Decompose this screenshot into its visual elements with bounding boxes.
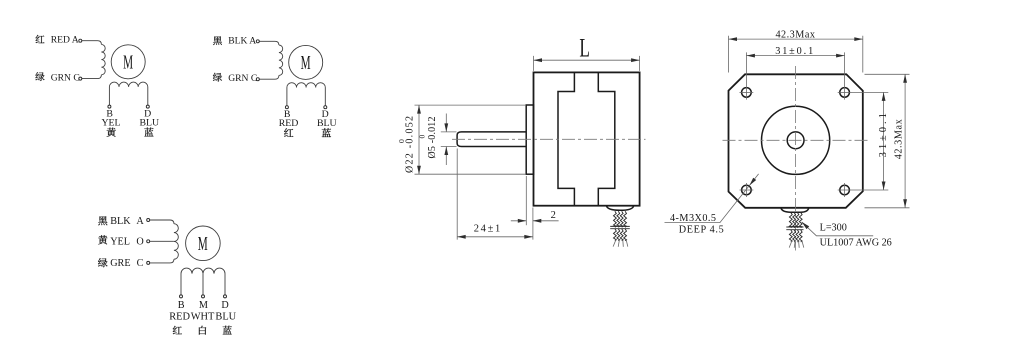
terminal C (D2) (256, 78, 259, 81)
svg-text:M: M (198, 233, 208, 255)
centreline (side view) (452, 138, 646, 140)
inductor winding A-C (D2) (279, 45, 283, 75)
wire: lead A (150, 220, 174, 224)
wire: phase lead C (D1) (82, 75, 102, 79)
svg-text:D: D (221, 300, 228, 311)
label: lead D wire colour (blue) (139, 108, 159, 136)
svg-text:42.3Max: 42.3Max (893, 119, 904, 159)
svg-text:RED: RED (279, 118, 299, 129)
callout L=300 (lead length) with leader (802, 222, 874, 236)
horizontal centreline (front view) (723, 139, 870, 141)
dimension 42.3Max (body width) (729, 29, 863, 72)
label: lead D wire colour (blue) (317, 109, 337, 137)
dimension L (body length) (534, 33, 640, 71)
svg-text:M: M (199, 300, 208, 311)
callout 4-M3X0.5 DEEP 4.5 (mounting holes) (665, 174, 759, 235)
svg-text:Ø22 -0.052: Ø22 -0.052 (405, 116, 416, 173)
terminal D (224, 295, 227, 298)
vertical centreline (front view) (795, 66, 797, 251)
dimension Ø5 (shaft diameter) (418, 114, 457, 166)
wire ends (side view) (613, 240, 628, 247)
label: terminal letters B M D (178, 300, 229, 311)
terminal O (147, 240, 150, 243)
svg-text:24±1: 24±1 (474, 223, 501, 234)
inductor winding A-O-C (174, 224, 178, 260)
svg-text:Ø5 -0.012: Ø5 -0.012 (427, 117, 438, 159)
dimension 31±0.1 (hole spacing, vertical) (852, 92, 889, 190)
terminal B (D2) (285, 106, 288, 109)
svg-text:BLU: BLU (317, 118, 337, 129)
lead wire bundle (front view) (789, 212, 802, 242)
terminal M (202, 295, 205, 298)
label: lead A (black) (98, 216, 144, 227)
inductor winding B-D (D1) (109, 82, 147, 105)
terminal D (D1) (146, 105, 149, 108)
cable tie band (side view) (610, 226, 630, 228)
svg-text:M: M (301, 52, 311, 74)
svg-text:GRE: GRE (110, 258, 130, 269)
svg-text:YEL: YEL (101, 117, 120, 128)
inductor winding B-D (D2) (287, 83, 325, 106)
svg-text:B: B (178, 300, 185, 311)
svg-text:C: C (137, 258, 144, 269)
mounting screw hole, top-left (740, 88, 754, 98)
terminal C (147, 261, 150, 264)
svg-text:DEEP 4.5: DEEP 4.5 (679, 224, 724, 235)
svg-text:42.3Max: 42.3Max (775, 29, 815, 40)
motor symbol M (D1) (111, 45, 145, 79)
dimension 31±0.1 (hole spacing, horizontal) (746, 46, 844, 100)
terminal A (D2) (256, 40, 259, 43)
wire: phase lead A (D2) (259, 41, 279, 45)
stator lamination stack contour (right) (598, 73, 615, 205)
motor shaft (457, 132, 526, 147)
motor symbol M (diagram 3) (186, 226, 221, 261)
label: lead A wire colour (black) (213, 35, 256, 46)
label: colours 红 白 蓝 (173, 326, 232, 335)
wire: phase lead A (D1) (82, 41, 102, 45)
stator lamination stack contour (left) (558, 73, 574, 205)
svg-text:GRN C: GRN C (51, 73, 80, 84)
callout UL1007 AWG 26 (wire spec) (820, 237, 892, 248)
inductor winding B-M-D (181, 268, 225, 295)
mounting screw hole, bottom-right (838, 183, 852, 197)
svg-text:RED A: RED A (51, 35, 79, 46)
svg-text:GRN C: GRN C (228, 73, 257, 84)
label: lead C (green) (98, 258, 143, 269)
label: centre tap O (yellow) (98, 235, 144, 247)
svg-text:2: 2 (551, 210, 556, 221)
cable grommet (side view) (606, 206, 633, 211)
svg-text:BLU: BLU (139, 117, 159, 128)
mounting screw hole, bottom-left (740, 183, 754, 197)
cable tie band (front view) (786, 227, 803, 230)
svg-text:BLK: BLK (110, 216, 131, 227)
label: lead B wire colour (red) (279, 109, 299, 137)
svg-text:RED: RED (169, 311, 190, 322)
wire: centre tap M (202, 274, 204, 295)
label: lead C wire colour (green) (213, 73, 257, 84)
label: lead A wire colour (red) (36, 35, 79, 46)
terminal C (D1) (79, 77, 82, 80)
label: lead C wire colour (green) (35, 72, 79, 83)
svg-text:A: A (136, 216, 144, 227)
svg-text:O: O (136, 236, 143, 247)
pilot boss circle Ø22 (762, 106, 830, 174)
svg-text:WHT: WHT (191, 311, 215, 322)
label: lead B wire colour (yellow) (101, 108, 120, 136)
dimension 2 (boss protrusion) (511, 176, 559, 225)
mounting screw hole, top-right (838, 88, 852, 98)
terminal D (D2) (324, 106, 327, 109)
svg-text:L: L (579, 33, 590, 62)
wire: lead C (150, 259, 174, 263)
motor symbol M (D2) (289, 45, 323, 79)
shaft circle Ø5 (787, 132, 804, 149)
motor body outline with chamfered corners (front view) (729, 74, 863, 208)
wire ends (front view) (789, 241, 804, 248)
wire: phase lead C (D2) (259, 75, 279, 79)
front mounting boss / pilot flange (526, 105, 533, 174)
lead wire bundle (side view) (614, 211, 627, 241)
inductor winding A-C (D1) (101, 44, 105, 74)
svg-text:BLK A: BLK A (228, 35, 256, 46)
dimension 42.3Max (body height, vertical) (865, 74, 910, 208)
svg-text:0: 0 (397, 139, 406, 143)
terminal A (D1) (79, 39, 82, 42)
svg-text:L=300: L=300 (820, 223, 847, 234)
svg-text:M: M (123, 51, 133, 73)
terminal B (180, 295, 183, 298)
motor body outline (side view) (534, 72, 640, 205)
svg-text:UL1007 AWG 26: UL1007 AWG 26 (820, 237, 892, 248)
label: colours RED WHT BLU (169, 311, 236, 322)
svg-text:BLU: BLU (215, 311, 236, 322)
wire: centre tap O (150, 240, 174, 242)
cable grommet (front view) (781, 208, 809, 212)
terminal B (D1) (108, 105, 111, 108)
dimension Ø22 (pilot boss diameter) (397, 105, 526, 174)
dimension 24±1 (shaft extension length) (457, 149, 533, 240)
svg-text:YEL: YEL (110, 236, 130, 247)
terminal A (147, 219, 150, 222)
